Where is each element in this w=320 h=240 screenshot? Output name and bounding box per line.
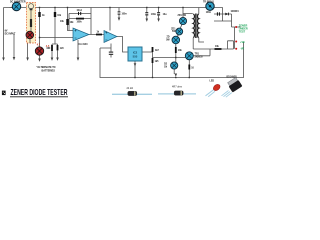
wire R2 drop bbox=[52, 8, 58, 58]
terminal point mid bbox=[235, 41, 237, 43]
svg-text:100n: 100n bbox=[206, 12, 212, 14]
green terminal labels bbox=[239, 24, 248, 50]
svg-text:10k: 10k bbox=[215, 46, 220, 48]
meter M1 ammeter bbox=[12, 2, 20, 10]
transistor Q1 bbox=[26, 31, 34, 39]
wire transformer primary top bbox=[198, 8, 200, 14]
resistor R8 4k7 bbox=[152, 47, 154, 52]
resistor R11 10k secondary bbox=[215, 48, 222, 50]
svg-text:LED: LED bbox=[210, 80, 215, 82]
zener diode ZD1 bbox=[179, 17, 186, 24]
resistor R4 100k feedback bbox=[76, 18, 84, 20]
terminal point - bbox=[235, 48, 237, 50]
op-amp U1 bbox=[73, 28, 89, 41]
resistor R6 1k5 bbox=[57, 45, 59, 50]
svg-text:4k7: 4k7 bbox=[155, 49, 160, 52]
wire C3 drop bbox=[118, 8, 120, 18]
resistor in box bbox=[30, 19, 32, 27]
svg-text:24 kΩ: 24 kΩ bbox=[127, 87, 134, 90]
capacitor C4 10n feedback bbox=[78, 12, 79, 15]
pictorial resistor 4R7 body bbox=[174, 91, 183, 95]
labels bbox=[5, 0, 240, 69]
wire left battery drop bbox=[3, 8, 5, 58]
svg-text:+VE: +VE bbox=[240, 41, 245, 44]
resistor R10 10k bbox=[175, 47, 177, 53]
svg-text:-VE: -VE bbox=[240, 48, 245, 51]
pictorial LED body bbox=[212, 83, 221, 92]
svg-text:555: 555 bbox=[133, 55, 138, 59]
wire zener chain bbox=[153, 8, 193, 75]
wire IC2 bottom pin bbox=[134, 61, 136, 78]
note alternate to batteries bbox=[37, 66, 56, 72]
zener diode ZD2 bbox=[176, 28, 183, 35]
svg-text:ZD1 5W: ZD1 5W bbox=[178, 15, 187, 17]
transformer T1 bbox=[193, 14, 199, 39]
pictorial resistor 24k lead bbox=[112, 93, 152, 95]
pictorial transistor BD140 body bbox=[227, 77, 242, 92]
transistor TR1 bbox=[185, 52, 193, 60]
svg-text:100k: 100k bbox=[77, 22, 83, 24]
resistor R5 680 bbox=[51, 45, 53, 51]
svg-text:DC INPUT: DC INPUT bbox=[5, 33, 16, 35]
wire terminal link bbox=[228, 27, 235, 49]
junction dots bbox=[39, 7, 190, 78]
svg-text:1N4004: 1N4004 bbox=[231, 10, 240, 13]
resistor R2 10k bbox=[54, 12, 56, 17]
svg-text:10n4: 10n4 bbox=[77, 9, 83, 12]
capacitor C2 10u bbox=[157, 12, 160, 13]
capacitor C3 100n bbox=[118, 11, 121, 12]
svg-text:1k5: 1k5 bbox=[155, 61, 160, 63]
svg-text:2N3055: 2N3055 bbox=[195, 56, 204, 58]
wire C1 drop bbox=[146, 8, 148, 19]
resistor R3 10k bbox=[66, 19, 68, 25]
svg-text:100n: 100n bbox=[122, 14, 128, 16]
svg-text:680: 680 bbox=[47, 48, 52, 50]
svg-text:9V: 9V bbox=[5, 31, 8, 33]
svg-text:10k: 10k bbox=[60, 21, 65, 23]
wire C2 drop bbox=[158, 8, 160, 19]
capacitor C6 100n bbox=[217, 12, 218, 15]
wire R3 drop to op-amp input bbox=[68, 8, 74, 31]
wire C5 stub bbox=[100, 44, 111, 58]
svg-text:1k: 1k bbox=[42, 15, 45, 17]
svg-text:TEST: TEST bbox=[239, 30, 246, 33]
ground arrows pointing down bbox=[2, 7, 177, 77]
svg-text:100n: 100n bbox=[151, 14, 157, 16]
wire TR1 node bbox=[189, 49, 210, 78]
pictorial resistor 24k body bbox=[128, 91, 137, 95]
svg-text:10k: 10k bbox=[70, 22, 75, 24]
wire IC2 right pin to R8 chain bbox=[142, 47, 153, 78]
wire U2 output to IC2 bbox=[117, 37, 128, 53]
svg-text:TR BD241: TR BD241 bbox=[203, 0, 215, 3]
wire right rectifier loop bbox=[214, 8, 241, 28]
svg-text:10k: 10k bbox=[178, 50, 183, 52]
pictorial LED leads bbox=[206, 90, 216, 97]
resistor R1 1k bbox=[38, 12, 40, 17]
svg-text:1k: 1k bbox=[97, 31, 100, 33]
wire battery return drop bbox=[13, 34, 15, 57]
lamp socket in box bbox=[28, 4, 33, 9]
svg-text:TR1: TR1 bbox=[195, 54, 200, 56]
op-amp U2 bbox=[104, 31, 117, 43]
capacitor C1 100n bbox=[145, 12, 148, 13]
svg-text:CA 3140: CA 3140 bbox=[79, 43, 89, 46]
wire top supply rail bbox=[4, 7, 223, 9]
resistor R12 10 bbox=[188, 65, 190, 70]
svg-text:10: 10 bbox=[191, 68, 194, 70]
wire U2 top supply bbox=[109, 8, 111, 31]
svg-text:1N: 1N bbox=[164, 66, 167, 68]
svg-text:DC AMMETER: DC AMMETER bbox=[10, 1, 26, 4]
svg-text:ZD: ZD bbox=[167, 37, 170, 39]
zener diode ZD3 bbox=[172, 36, 180, 44]
svg-text:4R7 ohm: 4R7 ohm bbox=[172, 85, 182, 88]
svg-text:10k: 10k bbox=[57, 15, 62, 17]
diode D5 1N4004 bbox=[225, 13, 228, 16]
wire feedback loop U1 bbox=[69, 8, 91, 35]
IC2 555 timer bbox=[128, 47, 142, 61]
svg-text:ZENER DIODE TESTER: ZENER DIODE TESTER bbox=[11, 88, 68, 97]
svg-text:BD140(B): BD140(B) bbox=[227, 76, 238, 79]
svg-text:1k5: 1k5 bbox=[60, 48, 65, 50]
svg-text:D2: D2 bbox=[164, 64, 168, 66]
diode D3 bbox=[171, 62, 178, 69]
highlighted section box (dashed) bbox=[27, 3, 36, 44]
capacitor C5 bbox=[109, 52, 113, 53]
terminal point + bbox=[235, 26, 237, 28]
wire bottom ground rail bbox=[100, 42, 244, 78]
wire Q1 emitter drop bbox=[27, 43, 29, 58]
wire transformer secondary bottom bbox=[193, 38, 233, 49]
wire inside box bbox=[30, 10, 31, 43]
transistor Q2 bbox=[35, 47, 43, 55]
svg-text:BATTERIES: BATTERIES bbox=[42, 69, 56, 72]
wire measure node to op-amp inverting input bbox=[40, 37, 74, 39]
wire R1 / Q2 drop bbox=[39, 8, 41, 59]
pictorial resistor 4R7 lead bbox=[158, 93, 196, 95]
pictorial transistor BD140 leads bbox=[222, 91, 232, 98]
publisher icon bbox=[2, 91, 6, 96]
resistor R7 1k bbox=[96, 34, 102, 36]
svg-text:4.7: 4.7 bbox=[37, 44, 41, 47]
wire op-amp1 ground pin bbox=[77, 40, 79, 58]
svg-text:5W: 5W bbox=[166, 39, 170, 41]
wire U1 output to R7 bbox=[89, 34, 104, 36]
resistor R9 1k5 bbox=[152, 58, 154, 63]
meter M2 / triac bbox=[206, 2, 214, 10]
svg-text:10u: 10u bbox=[163, 14, 168, 16]
